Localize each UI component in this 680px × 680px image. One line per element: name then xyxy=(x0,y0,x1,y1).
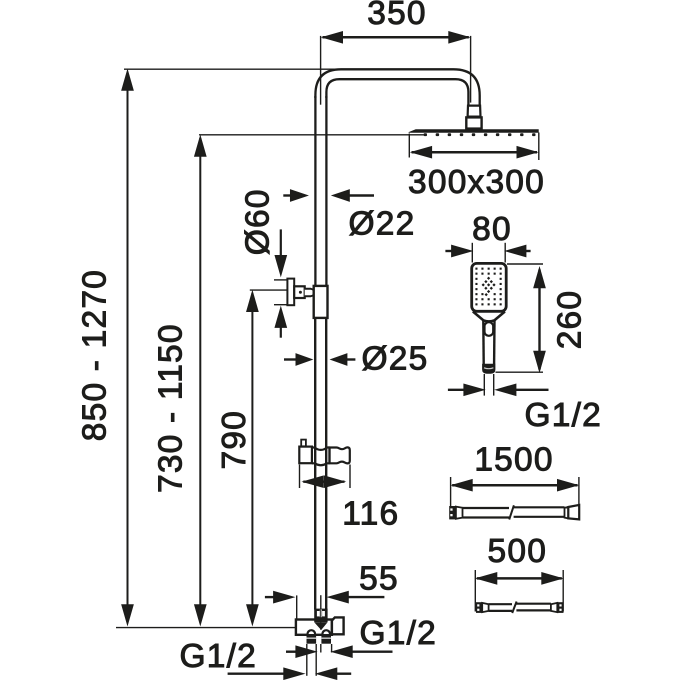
diverter valve body xyxy=(294,286,314,298)
slider holder tab xyxy=(301,440,306,447)
svg-text:116: 116 xyxy=(342,496,399,533)
dimension 790 xyxy=(247,290,288,625)
svg-text:Ø22: Ø22 xyxy=(349,206,416,243)
svg-text:260: 260 xyxy=(552,290,589,350)
column housing at diverter xyxy=(314,286,328,318)
diverter escutcheon (wall plate) xyxy=(287,279,294,306)
mixer axis line xyxy=(320,610,322,630)
dimension 1500 xyxy=(451,477,579,508)
svg-text:300x300: 300x300 xyxy=(408,164,545,201)
svg-text:850 - 1270: 850 - 1270 xyxy=(77,269,114,441)
dimension 350 xyxy=(321,32,471,105)
svg-text:G1/2: G1/2 xyxy=(525,397,602,434)
svg-text:80: 80 xyxy=(472,211,512,248)
overhead shower nozzles xyxy=(424,133,536,136)
shower arm (bent tube to overhead shower) xyxy=(315,69,479,105)
dimension 500 xyxy=(475,570,563,612)
svg-text:Ø60: Ø60 xyxy=(240,188,277,255)
shower head nut xyxy=(466,117,481,128)
pipe-to-mixer nut xyxy=(314,609,327,630)
svg-text:Ø25: Ø25 xyxy=(362,341,429,378)
shower hose 1500 xyxy=(449,505,579,520)
svg-text:G1/2: G1/2 xyxy=(180,638,257,675)
dimension G1/2 bottom inlet xyxy=(228,668,352,679)
mixer body xyxy=(296,617,344,634)
mixer outlet nut right xyxy=(321,630,331,644)
baseline reference line xyxy=(116,627,302,629)
dimension Ø25 xyxy=(284,354,355,365)
overhead shower plate 300x300 xyxy=(409,129,539,133)
dimension 55 xyxy=(265,591,385,619)
dimension G1/2 hand shower xyxy=(448,374,549,396)
hand shower head xyxy=(472,263,507,373)
dimension Ø60 xyxy=(274,229,288,337)
svg-text:350: 350 xyxy=(367,0,427,32)
svg-text:55: 55 xyxy=(359,560,399,597)
svg-text:730 - 1150: 730 - 1150 xyxy=(153,323,190,493)
hand shower spray dots xyxy=(475,268,501,306)
dimension 260 xyxy=(496,264,546,372)
dimension 116 xyxy=(300,465,351,489)
mixer outlet nut left xyxy=(307,630,317,644)
dimension 300x300 xyxy=(409,133,539,161)
dimension 80 xyxy=(445,243,530,263)
shower column pipe upper (Ø22 riser) xyxy=(315,96,326,287)
dimension 850 - 1270 xyxy=(122,69,338,625)
dimension 730 - 1150 xyxy=(195,135,424,625)
svg-text:1500: 1500 xyxy=(474,441,553,478)
slider holder (116) xyxy=(299,447,350,466)
dimension G1/2 mixer outlet xyxy=(286,644,393,676)
svg-text:G1/2: G1/2 xyxy=(360,615,437,652)
shower column pipe lower (Ø25) xyxy=(315,317,326,610)
svg-text:500: 500 xyxy=(488,533,548,570)
shower hose 500 xyxy=(476,602,564,614)
shower arm connector joint xyxy=(468,106,481,117)
svg-text:790: 790 xyxy=(216,410,253,470)
dimension Ø22 xyxy=(283,190,374,201)
